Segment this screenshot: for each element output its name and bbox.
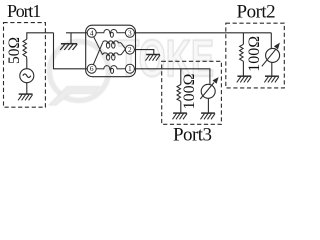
wire pin1 to Port3 xyxy=(134,69,210,85)
pin 3 xyxy=(125,28,134,37)
winding lower middle xyxy=(103,53,121,60)
ground Port1 source xyxy=(18,94,32,100)
meter M2 circle xyxy=(266,48,280,62)
ground Port3 resistor xyxy=(173,113,188,119)
AC source V1 xyxy=(20,69,34,83)
diagonal pin6 to upper winding xyxy=(93,43,102,65)
wire resistor to source xyxy=(26,59,28,69)
meter M3 arrow xyxy=(200,77,218,99)
watermark logo circle xyxy=(50,42,109,101)
ground Port2 resistor xyxy=(237,76,252,82)
wire Port2 meter stub xyxy=(270,33,272,49)
svg-text:4: 4 xyxy=(90,28,94,37)
svg-text:TOKE: TOKE xyxy=(118,30,214,88)
resistor R source 50ohm zigzag xyxy=(23,39,27,59)
svg-text:Port1: Port1 xyxy=(7,1,40,21)
resistor 100ohm Port3 zigzag xyxy=(177,85,181,102)
svg-text:3: 3 xyxy=(128,28,132,37)
pin 4 xyxy=(87,28,96,37)
svg-text:100Ω: 100Ω xyxy=(181,73,198,109)
pin 2 xyxy=(125,45,134,54)
wire Port1 to pin6 (L-shaped) xyxy=(54,33,88,69)
wire pin2 to ground xyxy=(134,50,153,55)
wire meter M2 to ground xyxy=(271,62,273,76)
wire pin3 to Port2 xyxy=(134,32,271,34)
wire Port2 resistor to ground xyxy=(242,61,244,76)
svg-text:Port2: Port2 xyxy=(237,2,276,23)
svg-text:1: 1 xyxy=(128,64,132,73)
wire Port2 resistor stub xyxy=(242,33,244,45)
Port1 dashed box xyxy=(4,23,46,108)
resistor 100ohm Port2 zigzag xyxy=(240,44,244,61)
Port2 dashed box xyxy=(226,23,284,88)
diagonal pin4 to lower winding xyxy=(94,37,103,55)
diagonals joining middle windings to pin2 xyxy=(121,43,126,55)
wire source to ground xyxy=(26,83,28,94)
wire Port3 resistor to ground xyxy=(180,101,182,113)
bottom winding pin6-pin1 xyxy=(96,66,125,74)
pin 6 xyxy=(87,64,96,73)
winding upper middle xyxy=(103,41,121,48)
ground at pin2 xyxy=(146,55,161,61)
pin 1 xyxy=(125,64,134,73)
svg-text:6: 6 xyxy=(90,64,94,73)
top winding pin4-pin3 xyxy=(96,30,126,38)
svg-text:2: 2 xyxy=(128,45,132,54)
svg-text:Port3: Port3 xyxy=(173,125,211,143)
wire meter M3 to ground xyxy=(207,98,209,113)
svg-text:100Ω: 100Ω xyxy=(246,36,263,72)
watermark swoosh xyxy=(49,87,100,106)
ground Port3 meter xyxy=(201,113,216,119)
ground Port2 meter xyxy=(264,76,279,82)
wire Port3 resistor stub xyxy=(180,69,182,85)
meter M2 arrow xyxy=(262,43,280,67)
ground at pin4 xyxy=(60,44,77,50)
svg-text:50Ω: 50Ω xyxy=(6,37,23,64)
meter M3 circle xyxy=(201,84,215,98)
Port3 dashed box xyxy=(162,61,222,124)
wire Port1 resistor top xyxy=(27,33,54,39)
transformer T1 body xyxy=(86,25,136,76)
wire pin4 to ground stub xyxy=(66,32,87,34)
